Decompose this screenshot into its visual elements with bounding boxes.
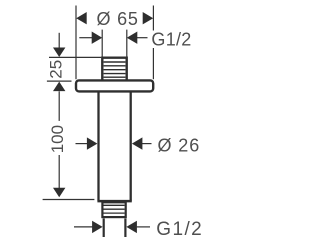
extension line flange-top level y81 [47,80,72,82]
pipe left wall [97,91,99,200]
dim tail dia26 left [76,143,89,145]
dim tail G1/2 top right [137,37,148,39]
flange (dia 65) [76,80,153,91]
top thread box G1/2 [102,58,126,81]
arrow G1/2 top left (points right) [92,32,103,44]
top thread hatch lines [104,62,126,77]
nipple right wall [124,218,126,237]
extension line right thread G1/2 top [126,30,128,57]
dim 25 upper tail [58,33,60,48]
svg-text:G1/2: G1/2 [151,30,191,50]
dim 100 line lower segment [58,155,60,188]
extension line right of dia65 dim (lower segment) [152,48,154,79]
bottom thread hatch lines [104,205,125,213]
svg-text:25: 25 [47,60,66,79]
extension line thread-top level y57 [49,56,101,58]
dim tail G1/2 bottom right [137,226,150,228]
arrow 100 bottom (points down) [53,188,65,198]
extension line thread-begin level y199.5 [43,199,95,201]
bottom thread box G1/2 [102,202,125,217]
extension line right of dia65 dim (upper segment) [152,6,154,31]
dim 100 line upper segment [58,91,60,121]
svg-text:Ø 26: Ø 26 [158,135,201,155]
pipe right wall [130,91,132,200]
svg-text:100: 100 [48,125,67,153]
arrow dia26 right (points left) [132,137,143,149]
dim tail G1/2 bottom left [74,226,93,228]
arrow 25 bottom / 100 top (points up) [53,82,65,92]
pipe bottom edge [97,200,131,203]
nipple left wall [103,218,105,237]
arrow 25 top (points down) [53,48,65,58]
svg-text:G1/2: G1/2 [156,219,203,240]
arrow dia65 right (points right) [143,12,154,24]
dim tail dia26 right [142,143,152,145]
svg-text:Ø 65: Ø 65 [97,9,139,29]
arrow G1/2 top right (points left) [127,32,138,44]
arrow G1/2 bottom left (points right) [92,221,103,233]
extension line left thread G1/2 top [101,30,103,57]
arrow dia26 left (points right) [87,137,98,149]
extension line left of dia65 dim [75,6,77,80]
arrow G1/2 bottom right (points left) [126,221,136,233]
dim tail G1/2 top left [79,37,92,39]
arrow dia65 left (points left) [76,12,87,24]
